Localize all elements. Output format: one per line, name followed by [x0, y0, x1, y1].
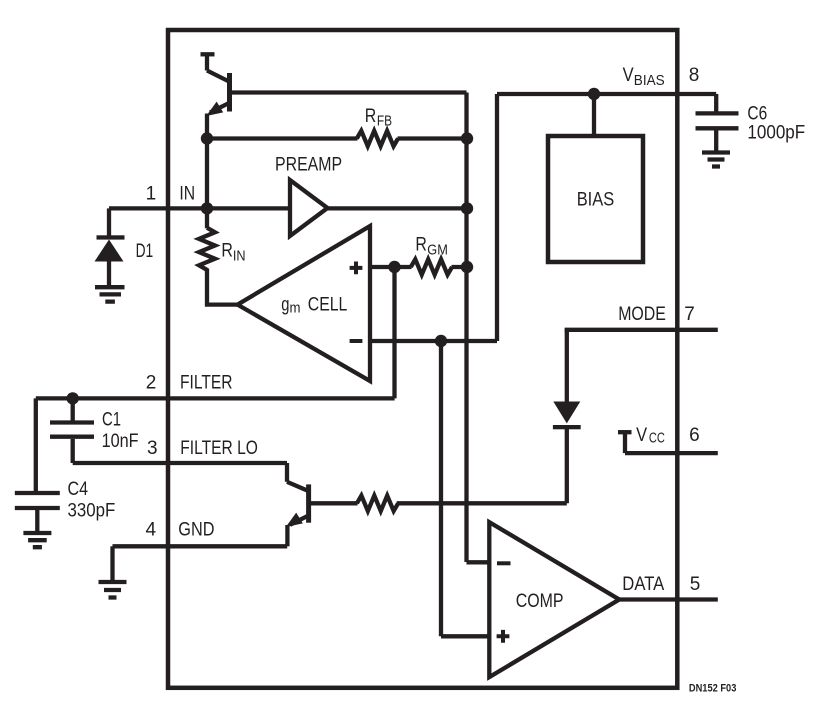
svg-text:C6: C6: [747, 103, 767, 124]
svg-text:1: 1: [146, 183, 157, 204]
svg-text:m: m: [290, 300, 301, 317]
svg-text:IN: IN: [179, 183, 195, 204]
svg-text:D1: D1: [136, 241, 154, 262]
svg-text:IN: IN: [233, 247, 246, 264]
svg-text:R: R: [365, 106, 377, 127]
svg-text:6: 6: [689, 425, 700, 446]
svg-text:PREAMP: PREAMP: [275, 154, 342, 175]
svg-text:CC: CC: [649, 430, 665, 447]
svg-text:8: 8: [689, 65, 700, 86]
svg-text:1000pF: 1000pF: [747, 123, 805, 144]
svg-text:DN152 F03: DN152 F03: [689, 682, 737, 694]
svg-text:COMP: COMP: [516, 591, 564, 612]
svg-text:CELL: CELL: [308, 295, 348, 316]
svg-text:R: R: [221, 240, 233, 261]
svg-text:5: 5: [690, 574, 701, 595]
svg-text:DATA: DATA: [622, 574, 664, 595]
svg-text:10nF: 10nF: [102, 431, 139, 452]
svg-text:BIAS: BIAS: [634, 72, 665, 89]
svg-text:V: V: [636, 425, 647, 446]
svg-text:GND: GND: [178, 520, 214, 541]
svg-text:3: 3: [147, 438, 158, 459]
svg-text:FB: FB: [377, 113, 392, 130]
svg-text:g: g: [281, 295, 289, 316]
svg-text:330pF: 330pF: [68, 501, 116, 522]
svg-text:GM: GM: [427, 242, 448, 259]
svg-text:FILTER: FILTER: [180, 373, 233, 394]
svg-text:FILTER LO: FILTER LO: [180, 438, 258, 459]
svg-text:MODE: MODE: [618, 304, 666, 325]
svg-text:BIAS: BIAS: [577, 190, 615, 211]
svg-text:C4: C4: [68, 479, 89, 500]
svg-text:C1: C1: [102, 410, 121, 431]
svg-text:4: 4: [146, 520, 157, 541]
svg-text:7: 7: [684, 304, 695, 325]
svg-text:R: R: [415, 235, 427, 256]
svg-text:2: 2: [146, 373, 157, 394]
svg-text:V: V: [623, 65, 634, 86]
